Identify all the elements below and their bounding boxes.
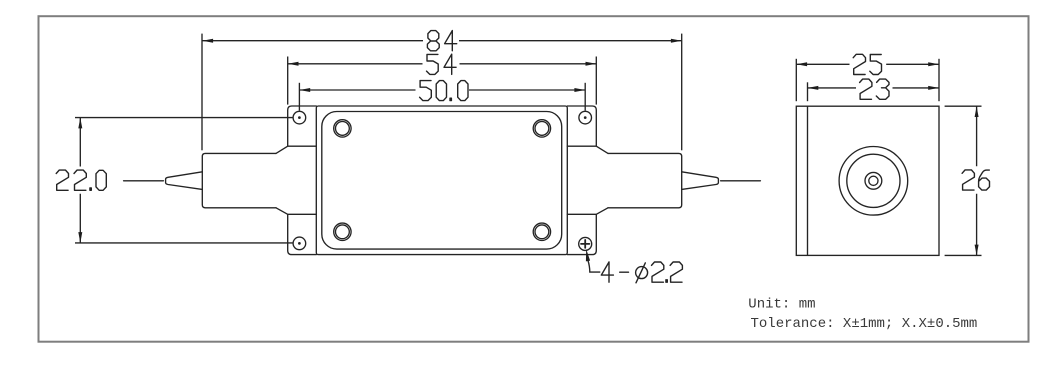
arrow 50.0 right [574, 88, 585, 92]
arrow 22.0 bottom [78, 232, 82, 243]
package body rectangle (top view) [316, 106, 567, 255]
fiber port outer circle [839, 147, 908, 216]
dim text 54 [427, 54, 457, 74]
screw hole bottom-left outer [334, 223, 351, 240]
screw hole top-right inner [535, 121, 549, 135]
arrow 25 right [928, 62, 939, 66]
lid plate rounded rectangle [322, 112, 562, 250]
dim 50.0 extension line left [298, 83, 300, 111]
dim text 26 [962, 170, 989, 190]
fiber ferrule bore [869, 176, 878, 185]
flange hole bottom-left [293, 237, 306, 250]
dim 84 extension line left [201, 34, 203, 151]
flange tab top-left [276, 106, 316, 153]
screw hole top-left inner [336, 121, 350, 135]
dim 26 extension top [945, 105, 982, 107]
dim text 25 [853, 54, 881, 74]
dim 50.0 line [299, 89, 585, 91]
screw hole top-left outer [334, 120, 351, 137]
dim 25 line [796, 63, 939, 65]
arrow 26 top [975, 106, 979, 117]
dim 23 line [808, 87, 940, 89]
flange tab bottom-right [567, 208, 608, 255]
arrow leader 4-2.2 [586, 249, 590, 261]
svg-text:Tolerance: X±1mm; X.X±0.5mm: Tolerance: X±1mm; X.X±0.5mm [751, 316, 978, 332]
fiber pigtail left [124, 180, 164, 182]
dim 54 extension line left [287, 57, 289, 105]
fiber port inner ring [847, 154, 900, 207]
dim 22.0 extension line bottom [75, 242, 293, 244]
arrow 22.0 top [78, 118, 82, 129]
dim 25 extension left [795, 59, 797, 101]
arrow 84 right [671, 39, 682, 43]
arrow 54 right [586, 62, 597, 66]
end view base plate edge [807, 106, 809, 255]
dim text 50.0 [420, 81, 468, 101]
dim text 23 [860, 79, 889, 99]
flange tab bottom-left [276, 208, 316, 255]
fiber boot left [166, 172, 203, 190]
svg-text:Unit: mm: Unit: mm [748, 297, 815, 313]
dim 54 line [288, 63, 597, 65]
screw hole bottom-left inner [336, 225, 350, 239]
fiber ferrule outer [865, 172, 882, 189]
leader line 4-2.2 [588, 261, 600, 273]
flange hole bottom-right with drill cross [579, 237, 592, 250]
dim 84 extension line right [681, 34, 683, 151]
arrow 23 left [808, 86, 819, 90]
arrow 50.0 left [299, 88, 310, 92]
flange hole top-right [579, 111, 592, 124]
snout right [608, 153, 682, 207]
dim 26 line [976, 106, 978, 255]
right view [796, 59, 981, 256]
screw hole bottom-right outer [533, 223, 550, 240]
dim 25 extension right [938, 59, 940, 101]
dim 84 line [202, 40, 681, 42]
arrow 84 left [202, 39, 213, 43]
dim 23 extension left [807, 82, 809, 101]
flange tab top-right [567, 106, 608, 153]
dim 50.0 extension line right [584, 83, 586, 111]
callout text 4-dia2.2 [601, 262, 682, 283]
screw hole bottom-right inner [535, 225, 549, 239]
end view body outline [796, 106, 939, 255]
dim text 22.0 [56, 170, 106, 190]
dim text 84 [427, 31, 456, 51]
arrow 54 left [288, 62, 299, 66]
screw hole top-right outer [533, 120, 550, 137]
snout left [202, 153, 276, 207]
arrow 23 right [928, 86, 939, 90]
fiber pigtail right [721, 180, 761, 182]
flange hole top-left [293, 111, 306, 124]
dim 54 extension line right [595, 57, 597, 105]
arrow 26 bottom [975, 245, 979, 256]
fiber boot right [682, 172, 719, 190]
dim 22.0 extension line top [75, 117, 293, 119]
arrow 25 left [796, 62, 807, 66]
dim 26 extension bottom [945, 254, 982, 256]
dim 22.0 line [79, 118, 81, 243]
